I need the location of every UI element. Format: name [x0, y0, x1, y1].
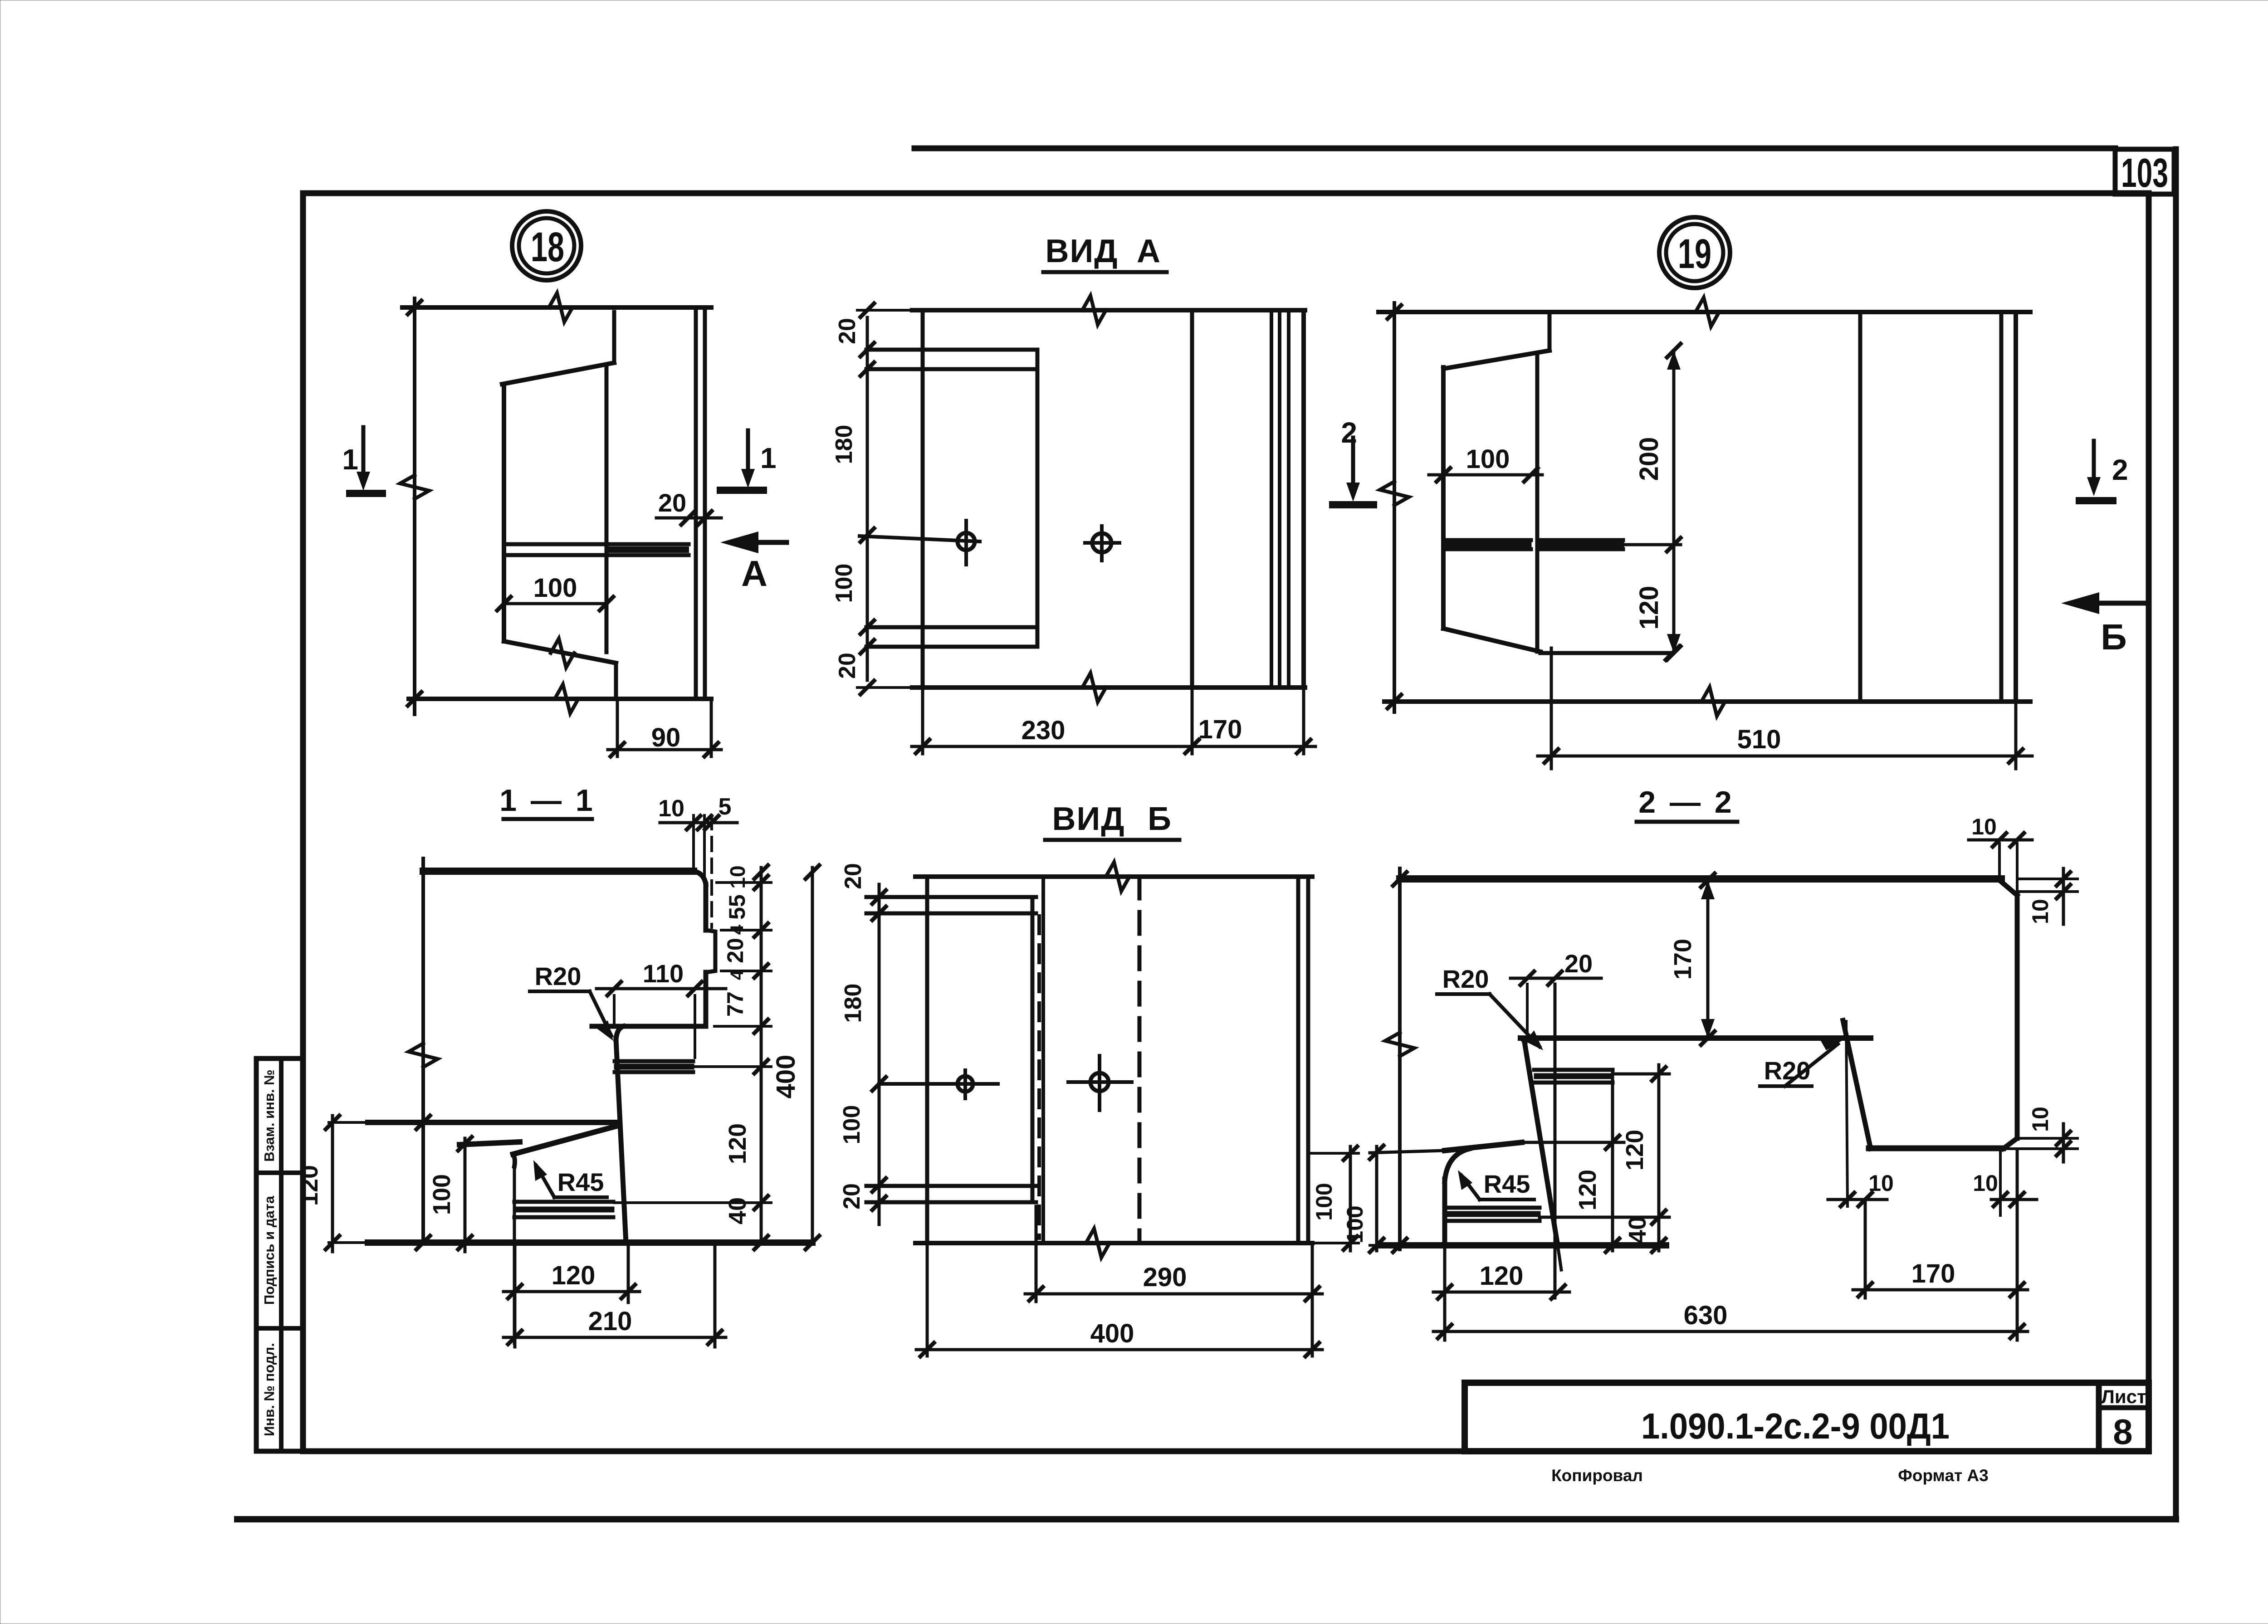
svg-text:Б: Б	[1148, 801, 1171, 837]
svg-text:290: 290	[1143, 1263, 1187, 1292]
svg-text:10: 10	[1868, 1170, 1894, 1196]
svg-text:Копировал: Копировал	[1551, 1466, 1643, 1485]
svg-text:110: 110	[643, 959, 684, 988]
svg-text:2: 2	[2112, 454, 2128, 486]
svg-text:1.090.1-2с.2-9 00Д1: 1.090.1-2с.2-9 00Д1	[1641, 1406, 1950, 1446]
svg-text:55: 55	[724, 894, 750, 920]
svg-text:100: 100	[428, 1174, 455, 1215]
svg-text:400: 400	[771, 1055, 801, 1099]
svg-text:10: 10	[726, 865, 749, 888]
svg-text:400: 400	[1090, 1319, 1134, 1348]
svg-text:5: 5	[719, 794, 732, 820]
svg-text:Б: Б	[2101, 617, 2127, 657]
svg-text:10: 10	[1973, 1170, 1998, 1196]
svg-text:1: 1	[760, 442, 777, 474]
svg-text:Подпись и дата: Подпись и дата	[261, 1195, 277, 1305]
svg-text:120: 120	[1480, 1261, 1524, 1291]
svg-text:20: 20	[839, 1183, 865, 1209]
svg-text:100: 100	[1466, 444, 1510, 474]
svg-text:А: А	[1137, 233, 1160, 269]
svg-text:103: 103	[2121, 151, 2168, 196]
svg-text:120: 120	[552, 1261, 596, 1290]
svg-text:100: 100	[533, 573, 577, 603]
svg-text:120: 120	[1574, 1170, 1601, 1210]
svg-text:19: 19	[1678, 231, 1711, 277]
svg-text:4: 4	[727, 924, 747, 935]
svg-text:120: 120	[1634, 586, 1664, 630]
svg-text:630: 630	[1684, 1301, 1728, 1330]
svg-text:77: 77	[723, 991, 748, 1017]
svg-text:ВИД: ВИД	[1052, 801, 1125, 837]
svg-text:R20: R20	[1442, 965, 1489, 993]
svg-text:40: 40	[1624, 1216, 1651, 1244]
svg-text:120: 120	[1621, 1130, 1648, 1170]
svg-text:ВИД: ВИД	[1045, 233, 1118, 269]
svg-text:Лист: Лист	[2101, 1386, 2146, 1407]
svg-text:Взам. инв. №: Взам. инв. №	[261, 1069, 277, 1161]
svg-text:1 — 1: 1 — 1	[499, 783, 595, 818]
svg-text:210: 210	[588, 1307, 632, 1336]
svg-text:1: 1	[342, 443, 358, 476]
svg-text:20: 20	[723, 938, 748, 963]
svg-text:Формат А3: Формат А3	[1898, 1466, 1988, 1485]
svg-text:20: 20	[834, 653, 860, 679]
svg-text:120: 120	[296, 1165, 323, 1206]
svg-text:А: А	[741, 553, 767, 594]
svg-text:10: 10	[658, 795, 684, 822]
svg-text:10: 10	[1971, 814, 1997, 839]
svg-text:10: 10	[2028, 1107, 2053, 1132]
svg-text:230: 230	[1022, 716, 1066, 745]
svg-text:Инв. № подл.: Инв. № подл.	[261, 1343, 277, 1436]
svg-text:100: 100	[839, 1105, 865, 1145]
svg-text:170: 170	[1669, 939, 1696, 980]
svg-text:100: 100	[1342, 1205, 1368, 1243]
svg-text:20: 20	[1564, 949, 1593, 978]
svg-text:170: 170	[1198, 715, 1242, 744]
svg-text:20: 20	[658, 488, 686, 517]
svg-text:180: 180	[840, 984, 866, 1023]
svg-text:90: 90	[651, 723, 681, 752]
svg-text:8: 8	[2113, 1412, 2132, 1452]
svg-text:200: 200	[1634, 437, 1664, 481]
svg-text:20: 20	[834, 318, 860, 344]
svg-text:10: 10	[2028, 899, 2053, 924]
svg-text:R45: R45	[557, 1168, 604, 1196]
svg-text:40: 40	[724, 1197, 751, 1224]
svg-text:120: 120	[724, 1123, 751, 1164]
svg-text:R45: R45	[1484, 1170, 1530, 1198]
svg-text:18: 18	[531, 224, 564, 270]
svg-text:20: 20	[840, 863, 866, 889]
svg-text:180: 180	[831, 425, 857, 464]
svg-text:R20: R20	[535, 962, 582, 990]
svg-text:2 — 2: 2 — 2	[1638, 785, 1734, 819]
svg-text:170: 170	[1911, 1259, 1955, 1288]
svg-text:4: 4	[727, 970, 747, 980]
svg-text:510: 510	[1737, 725, 1781, 754]
svg-text:100: 100	[1311, 1183, 1337, 1220]
svg-text:100: 100	[831, 564, 857, 603]
